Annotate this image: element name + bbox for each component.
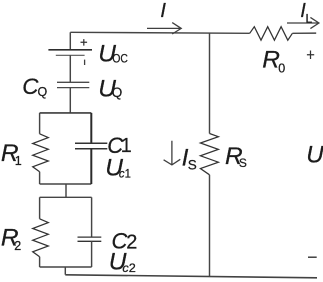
battery U_OC long plate (+) bbox=[48, 49, 92, 51]
terminal plus mark bbox=[307, 51, 314, 60]
node R1C1 box top bbox=[40, 112, 92, 114]
svg-text:c1: c1 bbox=[119, 167, 131, 181]
wire battery to C_Q bbox=[69, 55, 71, 82]
svg-text:Q: Q bbox=[112, 85, 123, 100]
current arrow I_L bbox=[287, 17, 319, 28]
wire battery top lead bbox=[69, 32, 71, 50]
node R2C2 box top bbox=[40, 196, 92, 198]
svg-text:I: I bbox=[160, 0, 166, 22]
wire C2 upper lead bbox=[91, 197, 93, 237]
svg-text:c2: c2 bbox=[122, 261, 136, 275]
wire C2 lower lead bbox=[91, 241, 93, 267]
wire R_S to bottom rail bbox=[209, 175, 211, 277]
capacitor C2 bbox=[78, 237, 102, 241]
svg-text:OC: OC bbox=[112, 53, 128, 65]
svg-text:0: 0 bbox=[278, 61, 285, 75]
svg-text:U: U bbox=[306, 142, 323, 169]
wire top node from battery to R0 bbox=[70, 32, 249, 33]
wire R2 lower lead bbox=[39, 257, 41, 267]
terminal minus mark bbox=[308, 256, 317, 258]
resistor R1 bbox=[33, 134, 49, 172]
svg-text:S: S bbox=[239, 156, 247, 170]
wire R1 lower lead bbox=[39, 172, 41, 184]
resistor R2 bbox=[33, 219, 49, 257]
wire R1 upper lead bbox=[39, 113, 41, 134]
resistor R_S bbox=[200, 134, 218, 175]
battery minus tick bbox=[84, 60, 86, 65]
resistor R0 bbox=[250, 27, 293, 41]
svg-text:S: S bbox=[188, 157, 197, 172]
wire C1 upper lead bbox=[90, 113, 92, 143]
svg-text:Q: Q bbox=[38, 85, 48, 99]
svg-text:2: 2 bbox=[126, 231, 137, 253]
wire junction to R_S bbox=[209, 33, 211, 134]
wire bottom rail bbox=[65, 275, 317, 278]
battery plus mark bbox=[81, 39, 88, 46]
wire between RC boxes bbox=[65, 184, 67, 197]
wire C_Q to R1C1 box bbox=[69, 88, 71, 113]
svg-text:L: L bbox=[306, 12, 313, 26]
capacitor C_Q bbox=[57, 82, 89, 87]
current arrow I_S bbox=[164, 141, 181, 165]
wire R2C2 box to bottom rail bbox=[64, 267, 66, 275]
wire R0 to right terminal bbox=[292, 32, 316, 34]
battery U_OC short plate (-) bbox=[56, 54, 85, 56]
current arrow I bbox=[147, 23, 181, 34]
svg-text:1: 1 bbox=[15, 154, 22, 168]
svg-text:2: 2 bbox=[14, 239, 21, 253]
wire R2 upper lead bbox=[39, 197, 41, 219]
node R1C1 box bottom bbox=[40, 183, 92, 185]
wire C1 lower lead bbox=[90, 149, 92, 184]
node R2C2 box bottom bbox=[40, 266, 92, 268]
capacitor C1 bbox=[75, 143, 107, 148]
